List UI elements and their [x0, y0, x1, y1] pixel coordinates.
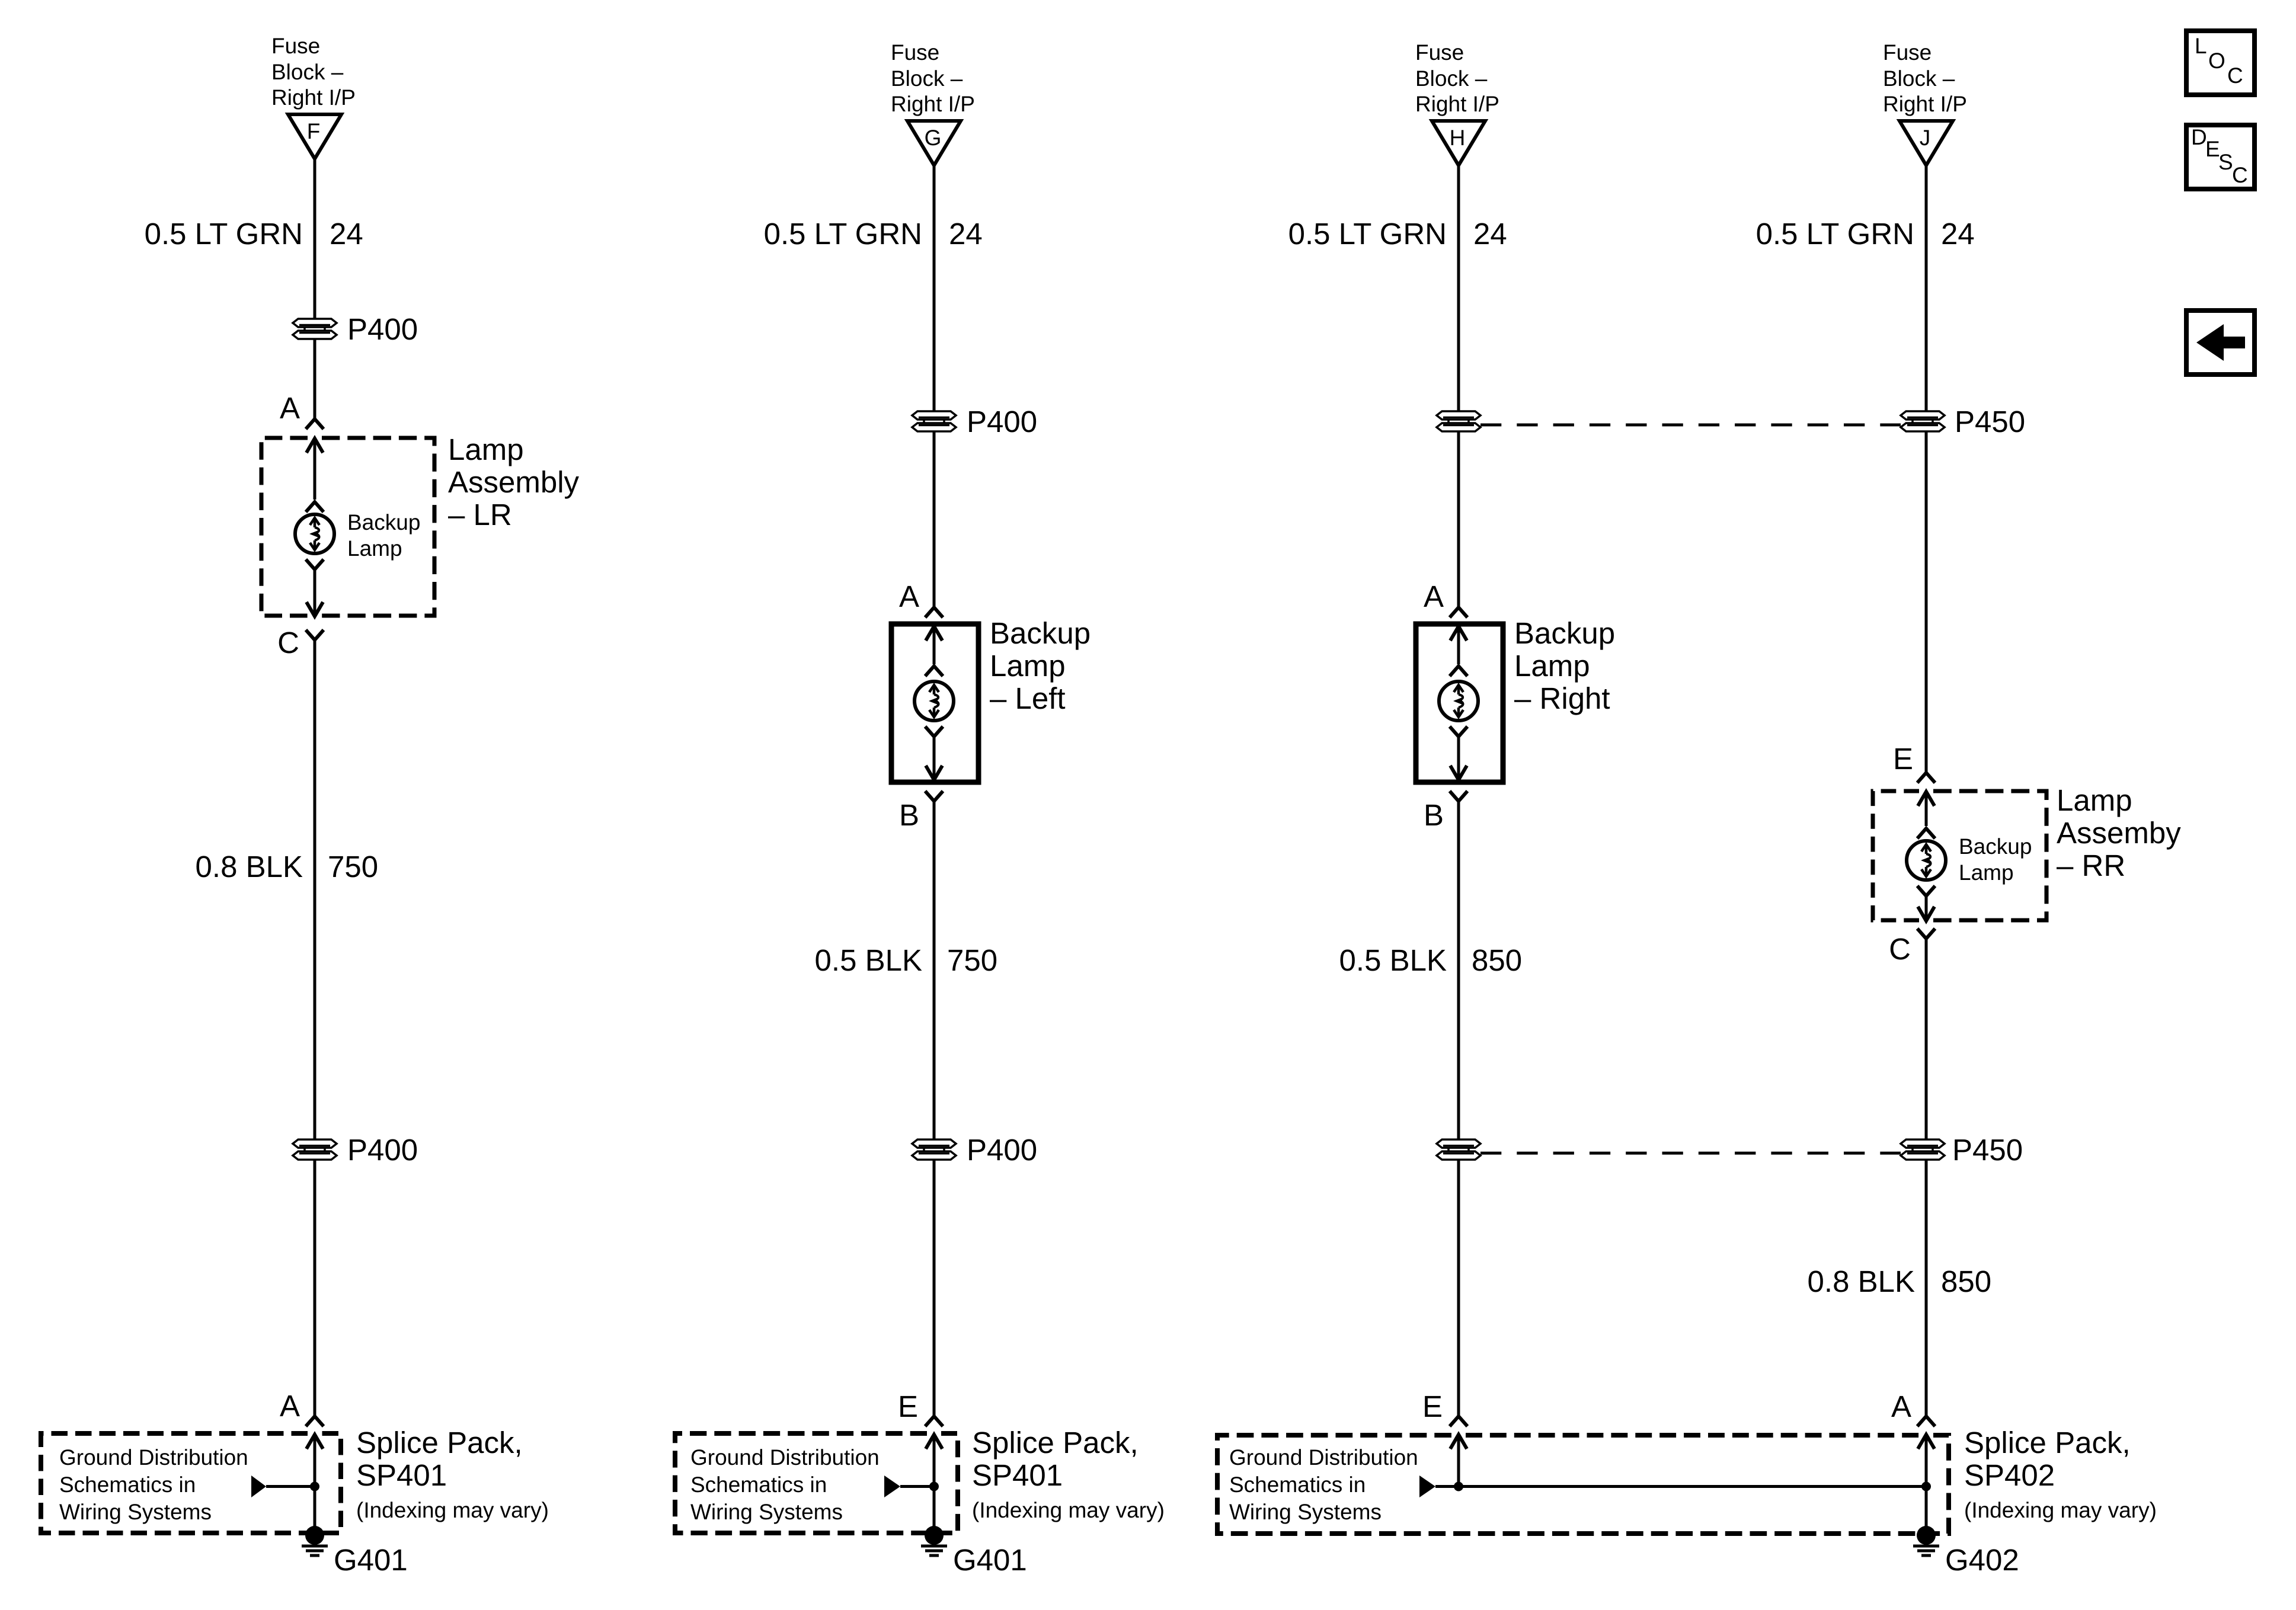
splice bus wire H to J: [1459, 1485, 1926, 1488]
svg-text:A: A: [280, 391, 300, 425]
wire label 0.8 BLK 850: [1808, 1265, 1992, 1298]
wire: lower P450 to splice pack pin A: [1925, 1160, 1928, 1416]
svg-text:750: 750: [947, 943, 997, 977]
G402 ground symbol: [1913, 1526, 1939, 1555]
splice arrow into SP402 (column J): [1918, 1435, 1934, 1536]
lamp terminal chevron (below bulb): [925, 726, 943, 737]
wire: triangle H to upper inline connector: [1457, 165, 1460, 411]
wire: pin B to lower P400 (0.5 BLK 750): [933, 801, 936, 1139]
svg-text:P400: P400: [347, 312, 418, 346]
svg-text:0.8 BLK: 0.8 BLK: [196, 850, 303, 884]
terminal chevron at pin C: [1917, 929, 1935, 939]
wire: P400 to Backup Lamp Left pin A: [933, 431, 936, 607]
connector P400 (upper, column G): [912, 411, 956, 432]
G401 (column F) ground symbol: [302, 1526, 328, 1555]
terminal arrow out of Backup Lamp Right (bottom): [1450, 737, 1467, 780]
terminal chevron at splice pin A: [1917, 1416, 1935, 1426]
dashed tie line between lower connectors H and J: [1480, 1152, 1901, 1155]
terminal chevron at pin A: [1450, 607, 1467, 617]
svg-text:A: A: [899, 580, 919, 613]
backup lamp bulb (LR): [295, 514, 334, 553]
wire label 0.5 BLK 750: [815, 943, 998, 977]
splice arrow into SP402 (column H): [1450, 1435, 1467, 1487]
wire label 0.8 BLK 750: [196, 850, 379, 884]
Ground Distribution dashed box (SP401, column G): [675, 1433, 958, 1533]
connector P450 (upper, column J): [1901, 411, 1945, 432]
svg-text:0.5 LT GRN: 0.5 LT GRN: [145, 217, 303, 251]
terminal chevron at splice pin A: [306, 1416, 324, 1426]
wire: P400 to Lamp Assembly LR pin A: [314, 339, 316, 419]
inline connector (upper, column H, mates P450): [1437, 411, 1480, 432]
svg-text:E: E: [898, 1390, 918, 1423]
wire: connector to Backup Lamp Right pin A: [1457, 431, 1460, 607]
svg-text:0.5 LT GRN: 0.5 LT GRN: [764, 217, 922, 251]
svg-text:A: A: [280, 1389, 300, 1423]
svg-text:F: F: [307, 119, 321, 143]
svg-text:24: 24: [1941, 217, 1975, 251]
terminal chevron at pin C: [306, 630, 324, 640]
terminal arrow out of Lamp Assembly RR (bottom): [1918, 896, 1934, 921]
wire: triangle J to connector P450: [1925, 165, 1928, 411]
svg-text:A: A: [1424, 580, 1444, 613]
lamp terminal chevron (above bulb): [1450, 666, 1467, 676]
terminal arrow into Backup Lamp Right (top): [1450, 626, 1467, 664]
Backup Lamp - Right box: [1416, 624, 1503, 782]
svg-text:850: 850: [1472, 943, 1522, 977]
wire label 0.5 LT GRN 24 (circuit H): [1288, 217, 1507, 251]
connector P400 (lower, column G): [912, 1139, 956, 1160]
wire: pin C to lower P400 (0.8 BLK 750): [314, 640, 316, 1139]
svg-text:P450: P450: [1955, 405, 2025, 438]
wire: pin C to lower P450 (0.8 BLK 850): [1925, 939, 1928, 1139]
dashed tie line between upper connectors H and J: [1480, 424, 1901, 427]
connector triangle F (Fuse Block - Right I/P): [288, 114, 341, 159]
lamp terminal chevron (above bulb): [306, 502, 324, 512]
svg-text:E: E: [1893, 742, 1913, 776]
lamp terminal chevron (below bulb): [306, 559, 324, 569]
wire: triangle F to connector P400: [314, 159, 316, 319]
svg-text:C: C: [1889, 932, 1911, 966]
terminal arrow out of Lamp Assembly LR (bottom): [306, 569, 323, 616]
connector P450 (lower, column J): [1901, 1139, 1945, 1160]
svg-text:0.8 BLK: 0.8 BLK: [1808, 1265, 1915, 1298]
svg-text:H: H: [1450, 126, 1466, 150]
svg-text:24: 24: [330, 217, 363, 251]
wire label 0.5 LT GRN 24 (circuit G): [764, 217, 983, 251]
back-arrow legend box: [2186, 311, 2255, 375]
DESC legend box: [2186, 125, 2255, 189]
svg-text:G402: G402: [1945, 1543, 2019, 1577]
terminal chevron at pin B: [925, 791, 943, 801]
connector triangle H (Fuse Block - Right I/P): [1432, 121, 1485, 165]
Lamp Assembly - LR dashed outline: [261, 438, 434, 616]
svg-text:750: 750: [328, 850, 378, 884]
wire: lower P400 to splice pack pin E: [933, 1160, 936, 1416]
terminal chevron at pin E: [1917, 773, 1935, 783]
wire: pin B to lower inline connector (0.5 BLK 850): [1457, 801, 1460, 1139]
svg-text:J: J: [1920, 126, 1931, 150]
svg-text:B: B: [899, 798, 919, 832]
splice arrow into SP401: [926, 1435, 942, 1536]
terminal arrow into Lamp Assembly RR (top): [1918, 792, 1934, 826]
svg-text:0.5 LT GRN: 0.5 LT GRN: [1288, 217, 1447, 251]
splice junction node (column J): [1921, 1482, 1931, 1491]
lamp terminal chevron (above bulb): [925, 666, 943, 676]
connector P400 (upper, column F): [293, 318, 337, 340]
backup lamp bulb (RR): [1907, 841, 1946, 880]
splice arrow into SP401: [306, 1435, 323, 1536]
wire label 0.5 LT GRN 24 (circuit J): [1756, 217, 1975, 251]
backup lamp bulb (Left): [914, 681, 954, 721]
svg-text:G: G: [925, 126, 942, 150]
svg-text:0.5 LT GRN: 0.5 LT GRN: [1756, 217, 1914, 251]
svg-text:24: 24: [1473, 217, 1507, 251]
wire: lower P400 to splice pack pin A: [314, 1160, 316, 1416]
wire label 0.5 BLK 850: [1339, 943, 1523, 977]
G401 (column G) ground symbol: [921, 1526, 947, 1555]
svg-text:B: B: [1424, 798, 1444, 832]
connector triangle G (Fuse Block - Right I/P): [907, 121, 961, 165]
svg-text:0.5 BLK: 0.5 BLK: [815, 943, 922, 977]
svg-text:C: C: [277, 626, 299, 660]
svg-text:P400: P400: [967, 1133, 1037, 1167]
splice feed arrow (SP402): [1419, 1475, 1459, 1497]
splice junction node: [929, 1482, 939, 1491]
terminal chevron at pin A: [925, 607, 943, 617]
lamp terminal chevron (below bulb): [1917, 886, 1935, 896]
svg-text:24: 24: [949, 217, 983, 251]
terminal arrow into Backup Lamp Left (top): [926, 626, 942, 664]
wire: P450 to Lamp Assembly RR pin E: [1925, 431, 1928, 773]
terminal arrow into Lamp Assembly LR (top): [306, 438, 323, 500]
splice junction node (column H): [1454, 1482, 1463, 1491]
svg-text:(Indexing may vary): (Indexing may vary): [356, 1498, 549, 1522]
svg-text:P400: P400: [967, 405, 1037, 438]
svg-text:G401: G401: [953, 1543, 1027, 1577]
connector triangle J (Fuse Block - Right I/P): [1900, 121, 1953, 165]
Lamp Assembly - RR dashed outline: [1873, 791, 2046, 920]
backup lamp bulb (Right): [1439, 681, 1478, 721]
terminal chevron at pin B: [1450, 791, 1467, 801]
terminal chevron at splice pin E: [1450, 1416, 1467, 1426]
lamp terminal chevron (below bulb): [1450, 726, 1467, 737]
terminal chevron at pin A: [306, 419, 324, 429]
splice junction node: [310, 1482, 319, 1491]
svg-text:P450: P450: [1952, 1133, 2023, 1167]
svg-text:(Indexing may vary): (Indexing may vary): [972, 1498, 1165, 1522]
svg-text:A: A: [1891, 1390, 1911, 1423]
wire: triangle G to connector P400: [933, 165, 936, 411]
Backup Lamp - Left box: [891, 624, 978, 782]
svg-text:G401: G401: [334, 1543, 408, 1577]
terminal arrow out of Backup Lamp Left (bottom): [926, 737, 942, 780]
LOC legend box: [2186, 31, 2255, 95]
svg-text:(Indexing may vary): (Indexing may vary): [1964, 1498, 2157, 1522]
Ground Distribution dashed box (SP402, columns H and J): [1217, 1435, 1949, 1534]
svg-text:850: 850: [1941, 1265, 1991, 1298]
splice feed arrow (SP401 column G): [884, 1475, 934, 1497]
terminal chevron at splice pin E: [925, 1416, 943, 1426]
Ground Distribution dashed box (SP401, column F): [41, 1433, 341, 1533]
svg-text:0.5 BLK: 0.5 BLK: [1339, 943, 1447, 977]
svg-text:P400: P400: [347, 1133, 418, 1167]
wire: lower connector to splice pack pin E: [1457, 1160, 1460, 1416]
svg-text:E: E: [1422, 1390, 1443, 1423]
splice feed arrow (SP401 column F): [251, 1475, 315, 1497]
lamp terminal chevron (above bulb): [1917, 828, 1935, 838]
connector P400 (lower, column F): [293, 1139, 337, 1160]
wire label 0.5 LT GRN 24 (circuit F): [145, 217, 363, 251]
inline connector (lower, column H, mates P450): [1437, 1139, 1480, 1160]
